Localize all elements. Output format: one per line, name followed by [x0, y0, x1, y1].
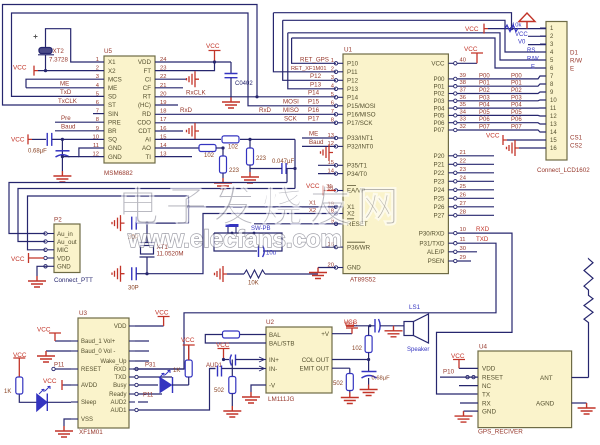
svg-text:10: 10	[460, 227, 466, 233]
wire ME to U5 pin4	[26, 87, 104, 89]
wire U4 GND wire	[464, 410, 479, 412]
wire P23 stub	[457, 180, 494, 182]
svg-text:GND: GND	[108, 145, 122, 152]
svg-text:VSS: VSS	[81, 417, 93, 423]
ground (rotated) at U5 CDT	[187, 123, 200, 139]
wire U5 (HC) stub	[155, 104, 178, 106]
wire U3 VDD wire	[135, 325, 164, 327]
svg-text:X1: X1	[108, 59, 116, 66]
svg-text:Au_in: Au_in	[57, 231, 73, 238]
svg-text:P02: P02	[511, 88, 522, 94]
wire U5 CF stub	[155, 87, 183, 89]
svg-text:Baud_1 Vol+: Baud_1 Vol+	[81, 339, 116, 345]
svg-text:P05: P05	[511, 110, 522, 116]
capacitor C 0.68uF polarized plates	[56, 150, 70, 152]
svg-text:P07: P07	[511, 125, 522, 131]
wire ME to P33 stub	[302, 137, 336, 139]
connector P2 pin stubs	[47, 233, 54, 235]
svg-text:P14: P14	[308, 89, 320, 96]
junction cap047 node	[293, 167, 296, 170]
svg-text:P11: P11	[54, 363, 65, 369]
processor U1 active-low overlines	[347, 186, 365, 243]
svg-text:32: 32	[460, 124, 466, 130]
wire L1 Au_in	[9, 183, 287, 234]
resistor C223b	[247, 148, 254, 165]
wire P06 to LCD pin13	[457, 123, 546, 124]
wire gnd to 10K	[227, 273, 244, 275]
svg-text:Au_out: Au_out	[57, 239, 77, 246]
svg-text:ALE/P: ALE/P	[427, 249, 445, 256]
svg-text:VCC: VCC	[155, 310, 169, 317]
svg-text:P2: P2	[54, 217, 62, 224]
svg-text:TXD: TXD	[476, 236, 489, 243]
svg-text:P22: P22	[433, 170, 445, 177]
svg-text:SQ: SQ	[108, 137, 117, 144]
svg-text:P12: P12	[310, 73, 322, 80]
wire U5 FT to VCC	[155, 62, 215, 71]
power VCC U3 VDD	[158, 317, 170, 327]
svg-text:E: E	[570, 66, 574, 73]
svg-text:VCC: VCC	[43, 378, 57, 385]
capacitor coupling IN+	[230, 355, 236, 366]
svg-text:TxCLK: TxCLK	[58, 98, 78, 105]
wire VCC to cap0.68a	[32, 138, 46, 140]
svg-text:VCC: VCC	[206, 43, 220, 50]
wire reset loop left	[214, 233, 257, 251]
wire U3 VSS wire	[64, 419, 71, 426]
wire P34 stub	[318, 173, 336, 175]
junction VDD node	[213, 60, 216, 63]
wire AUD1 to LM111 IN-	[138, 369, 216, 411]
svg-text:R/W: R/W	[570, 58, 582, 65]
svg-text:RT: RT	[143, 94, 151, 101]
svg-text:P03: P03	[511, 95, 522, 101]
capacitor 10u	[259, 246, 265, 258]
svg-text:AI: AI	[145, 137, 151, 144]
wire U3 Baud1 wire	[55, 340, 71, 342]
junction sw right contact	[253, 232, 256, 235]
wire cap to speaker	[380, 325, 405, 327]
svg-text:35: 35	[460, 102, 466, 108]
svg-text:Baud_0 Vol -: Baud_0 Vol -	[81, 349, 115, 355]
wire LCD pin16 wire	[519, 147, 546, 149]
ground under P2	[28, 276, 46, 287]
svg-text:P10: P10	[443, 369, 455, 376]
svg-text:P12: P12	[347, 78, 359, 85]
svg-text:AT89S52: AT89S52	[350, 277, 376, 284]
svg-text:25: 25	[460, 184, 466, 190]
svg-text:RxD: RxD	[180, 107, 193, 114]
svg-text:LM111JG: LM111JG	[268, 396, 294, 403]
svg-text:11: 11	[550, 106, 557, 112]
wire AI to C223b	[249, 139, 251, 150]
wire ANT wire	[572, 377, 589, 379]
svg-text:VCC: VCC	[216, 342, 230, 349]
svg-text:36: 36	[460, 95, 466, 101]
power VCC for U5 X2	[34, 66, 38, 76]
svg-text:P10: P10	[347, 61, 359, 68]
svg-text:10k: 10k	[512, 23, 521, 29]
svg-text:VCC: VCC	[13, 65, 27, 72]
svg-text:BAL/STB: BAL/STB	[269, 340, 294, 347]
ground under 502a	[223, 406, 241, 417]
wire +V wire	[332, 333, 352, 335]
module U3 pin stubs	[129, 325, 135, 327]
svg-text:P14: P14	[347, 95, 359, 102]
svg-text:P33/INT1: P33/INT1	[347, 135, 374, 142]
svg-text:P07: P07	[433, 127, 445, 134]
svg-text:ME: ME	[60, 81, 69, 88]
svg-text:P16/MISO: P16/MISO	[347, 112, 376, 119]
wire XT1 bottom lead	[146, 257, 148, 274]
wire BAL loop to BAL/STB	[205, 335, 266, 344]
wire 502b to gnd	[349, 391, 351, 393]
wire TxD loop B to P15	[12, 13, 337, 106]
LED D2 busy indicator	[160, 378, 172, 393]
svg-text:33: 33	[460, 117, 466, 123]
junction sw left contact	[231, 232, 234, 235]
svg-text:27: 27	[460, 201, 466, 207]
power VCC for +V	[346, 328, 358, 334]
wire LED b to U3 Sleep	[47, 401, 71, 403]
wire U5 GND to gnd chain	[62, 156, 79, 158]
svg-text:MISO: MISO	[283, 107, 299, 114]
svg-text:P36/WR: P36/WR	[347, 244, 371, 251]
svg-text:IN+: IN+	[269, 357, 279, 364]
svg-text:P25: P25	[433, 196, 445, 203]
svg-text:FT: FT	[143, 68, 151, 75]
ground under U1	[309, 268, 327, 279]
junction x188 node	[187, 205, 190, 208]
wire L1 up leg	[286, 169, 288, 183]
wire P00 to LCD pin7	[457, 76, 546, 79]
ground under 502b	[341, 393, 359, 404]
wire cap to IN-	[222, 368, 260, 370]
wire SCK CDO to U1 P17	[155, 122, 336, 124]
IC body U1 AT89S52	[343, 54, 448, 274]
wire U5 TI stub	[155, 156, 192, 158]
wire U5 GND pins tie	[79, 148, 104, 157]
wire P03 to LCD pin10	[457, 99, 546, 102]
antenna	[584, 259, 593, 378]
wire TxCLK loop A to RxCLK net	[3, 5, 258, 106]
wire U3 Ready wire	[138, 393, 162, 395]
wire XT1 top wire	[147, 222, 189, 224]
svg-text:26: 26	[460, 192, 466, 198]
svg-text:RET_XF1M01: RET_XF1M01	[291, 66, 326, 72]
ground under Baud0	[37, 351, 55, 362]
svg-text:GND: GND	[108, 154, 122, 161]
svg-text:COL OUT: COL OUT	[302, 357, 329, 364]
wire BAL wire	[240, 334, 267, 336]
svg-text:12: 12	[550, 114, 557, 120]
resistor R bal	[223, 331, 240, 338]
svg-text:P34/T0: P34/T0	[347, 171, 368, 178]
ground (rotated) at 30P b	[112, 266, 125, 282]
resistor R102a	[199, 145, 216, 152]
svg-text:6: 6	[331, 101, 334, 107]
svg-text:CF: CF	[143, 85, 151, 92]
ground (rotated) near INT pins	[321, 145, 334, 161]
wire U4 RESET wire	[440, 376, 478, 378]
wire cap068b bottom lead	[368, 378, 370, 385]
wire U3 AVDD wire	[63, 384, 71, 386]
svg-text:PRE: PRE	[108, 119, 121, 126]
wire to 502b	[349, 368, 351, 374]
ground under U4 GND	[455, 411, 473, 422]
svg-text:15: 15	[550, 138, 557, 144]
svg-text:Baud: Baud	[309, 139, 324, 146]
resistor R 1K a	[185, 360, 192, 377]
wire U5 CI stub	[155, 78, 186, 80]
resistor R 502a	[229, 377, 236, 394]
svg-text:VCC: VCC	[464, 46, 478, 53]
switch SW-PB	[226, 224, 239, 227]
wire E left leg to P13	[288, 33, 336, 89]
svg-text:TI: TI	[146, 154, 152, 161]
wire U3 B1 right stub	[135, 340, 149, 342]
svg-text:11: 11	[460, 237, 466, 243]
svg-text:R/W: R/W	[527, 56, 539, 62]
wire 1K a top lead	[188, 345, 190, 360]
svg-text:1K: 1K	[4, 389, 11, 395]
svg-text:5: 5	[331, 92, 334, 98]
svg-text:NC: NC	[482, 383, 492, 390]
svg-text:Pre: Pre	[61, 115, 71, 122]
svg-text:24: 24	[460, 175, 467, 181]
svg-text:VCC: VCC	[11, 256, 25, 263]
IC body J1 Connect_LCD1602	[546, 22, 567, 161]
wire L2 Au_out	[18, 189, 295, 242]
svg-text:U1: U1	[344, 47, 353, 54]
svg-text:VDD: VDD	[57, 255, 71, 262]
wire U3 B0 right stub	[135, 350, 149, 352]
comparator stub marks	[259, 359, 266, 361]
power VCC U4 VDD	[453, 360, 465, 369]
wire L3 MIC	[28, 196, 190, 250]
svg-text:P06: P06	[479, 117, 490, 123]
svg-text:GND: GND	[482, 408, 496, 415]
svg-text:MIC: MIC	[57, 247, 69, 254]
svg-text:P35/T1: P35/T1	[347, 163, 368, 170]
ground under U3 VSS	[55, 426, 73, 437]
svg-text:P00: P00	[479, 73, 490, 79]
svg-text:VDD: VDD	[482, 366, 496, 373]
wire P04 to LCD pin11	[457, 107, 546, 109]
ground (rotated) at LCD CS2	[507, 140, 520, 156]
svg-text:13: 13	[550, 122, 557, 128]
wire U4 RX stub	[460, 402, 478, 404]
svg-text:Connect_PTT: Connect_PTT	[54, 277, 93, 284]
svg-text:14: 14	[550, 130, 557, 136]
wire cap047 to L2	[294, 169, 296, 189]
wire to 502a	[231, 360, 233, 377]
svg-text:U4: U4	[479, 344, 488, 351]
svg-text:BR: BR	[108, 128, 117, 135]
svg-text:30: 30	[460, 246, 466, 252]
svg-text:VCC: VCC	[37, 327, 51, 334]
svg-text:10K: 10K	[248, 281, 259, 287]
svg-text:Sleep: Sleep	[81, 400, 97, 406]
wire TXD to U3 RXD	[133, 243, 496, 369]
IC body U4 GPS_RECIVER	[478, 351, 572, 428]
svg-text:102: 102	[228, 145, 239, 151]
svg-text:P26: P26	[433, 204, 445, 211]
wire SQ node down	[61, 139, 63, 171]
svg-text:P04: P04	[433, 105, 445, 112]
svg-text:RET_GPS: RET_GPS	[300, 57, 329, 64]
svg-text:CI: CI	[145, 76, 151, 83]
svg-text:X2: X2	[108, 68, 116, 75]
resistor R102b	[222, 136, 239, 143]
LED D1 indicator	[37, 394, 47, 411]
wire U3 Busy wire	[138, 384, 158, 386]
wire line C top to LCD pin1	[273, 13, 511, 29]
svg-text:Wake_Up: Wake_Up	[100, 359, 127, 365]
svg-text:IN-: IN-	[269, 366, 277, 373]
wire RXD to GPS TX	[437, 233, 513, 394]
wire U5 CDT stub	[155, 130, 183, 132]
wire D left leg to P12	[283, 20, 336, 80]
junction col node	[367, 358, 370, 361]
junction speaker line node	[369, 324, 372, 327]
wire U3 RXD wire	[138, 368, 184, 370]
wire XT2 top to U5 X1 pin1	[46, 29, 105, 62]
wire LCD pin3 wire	[528, 44, 546, 46]
resistor R 1K b	[16, 377, 23, 394]
wire P35 stub	[318, 164, 336, 166]
wire U3 WakeUp stub	[135, 360, 149, 362]
wire cap047 left wire	[250, 168, 282, 170]
wire C0402 bottom lead	[230, 78, 232, 97]
svg-text:P04: P04	[511, 103, 522, 109]
svg-text:22: 22	[460, 158, 466, 164]
wire U1 GND wire	[318, 267, 336, 269]
svg-text:30P: 30P	[128, 286, 139, 292]
IC body U3 XF1M01	[78, 318, 129, 428]
resistor R 102 c	[365, 336, 372, 353]
svg-text:ANT: ANT	[540, 375, 553, 382]
wire C223a to gnd	[222, 173, 224, 178]
ground under -V	[242, 392, 260, 403]
ground under speaker line	[385, 326, 403, 337]
wire F left leg to P10	[292, 38, 336, 63]
svg-text:P32/INT0: P32/INT0	[347, 144, 374, 151]
wire C223b to gnd	[249, 165, 251, 172]
svg-text:P31/TXD: P31/TXD	[419, 240, 445, 247]
wire U5 VDD to C0402	[155, 61, 231, 63]
ground under 0.68uF b	[360, 385, 378, 396]
svg-text:ME: ME	[108, 85, 117, 92]
svg-text:GND: GND	[347, 265, 361, 272]
wire 102c bottom lead	[368, 353, 370, 360]
power VCC for LCD pin1	[484, 24, 488, 34]
svg-text:P06: P06	[511, 117, 522, 123]
svg-text:AGND: AGND	[536, 400, 555, 407]
power VCC for U3 AVDD	[62, 380, 63, 390]
svg-text:7: 7	[331, 109, 334, 115]
capacitor speaker coupling	[375, 319, 380, 333]
wire P26 stub	[457, 206, 494, 208]
wire 102c top lead	[368, 326, 370, 336]
wire U5 AI to R102b	[155, 138, 221, 140]
svg-text:GPS_RECIVER: GPS_RECIVER	[478, 429, 523, 436]
ground (rotated) reset divider	[215, 266, 228, 282]
svg-text:34: 34	[460, 109, 467, 115]
svg-text:ST: ST	[108, 102, 116, 109]
wire P27 stub	[457, 214, 494, 216]
wire 30Pa to node	[137, 222, 148, 224]
wire P05 to LCD pin12	[457, 114, 546, 117]
wire AI node wire	[240, 138, 295, 140]
wire P21 stub	[457, 163, 494, 165]
wire P07 to LCD pin14	[457, 130, 546, 132]
speaker LS1	[404, 322, 414, 336]
svg-text:AO: AO	[142, 145, 151, 152]
power VCC for U5 SQ	[28, 134, 32, 144]
svg-text:P13: P13	[347, 86, 359, 93]
wire 1K a bottom lead	[188, 377, 190, 385]
wire COL OUT wire	[332, 359, 369, 361]
wire cap047 right wire	[286, 168, 295, 170]
capacitor C 0.047uF	[282, 163, 286, 174]
svg-text:Connect_LCD1602: Connect_LCD1602	[537, 167, 590, 174]
svg-text:P17/SCK: P17/SCK	[347, 120, 373, 127]
svg-text:VCC: VCC	[181, 337, 195, 344]
ground under C223b	[241, 172, 259, 183]
svg-text:TX: TX	[482, 391, 491, 398]
svg-text:38: 38	[460, 80, 466, 86]
wire AO to C223a	[222, 148, 224, 158]
svg-text:C0402: C0402	[235, 81, 253, 87]
svg-text:223: 223	[256, 156, 267, 162]
svg-text:AUD1: AUD1	[110, 408, 127, 414]
wire line D top to LCD RS	[283, 20, 546, 52]
processor U1 left pin stubs	[338, 62, 344, 64]
svg-text:MOSI: MOSI	[283, 99, 299, 106]
IC body P2 Connect_PTT	[54, 224, 80, 273]
junction loopA joins RxCLK	[255, 95, 258, 98]
wire cap left short	[210, 368, 216, 370]
wire LCD pin2 wire	[528, 35, 546, 37]
svg-text:P27: P27	[433, 213, 445, 220]
svg-text:U2: U2	[266, 319, 275, 326]
wire cap to IN+	[236, 359, 260, 361]
svg-text:VCC: VCC	[451, 353, 465, 360]
wire P24 stub	[457, 189, 494, 191]
wire line F top to LCD E	[292, 38, 546, 68]
junction pot node	[510, 27, 513, 30]
wire U4 AGND wire	[572, 402, 587, 404]
svg-text:P31: P31	[145, 363, 156, 369]
svg-text:RD: RD	[142, 111, 151, 118]
svg-text:RX: RX	[482, 400, 492, 407]
wire U5 MCS tie	[26, 79, 104, 88]
ground under C223a	[214, 178, 232, 189]
svg-text:RESET: RESET	[482, 374, 503, 381]
svg-text:RS: RS	[527, 48, 535, 54]
junction XT2/X2	[44, 69, 47, 72]
svg-text:P13: P13	[310, 82, 322, 89]
wire 10K to gnd node	[265, 273, 318, 275]
wire LCD pin1 wire	[488, 28, 546, 30]
power VCC for LCD CS1	[503, 135, 507, 145]
svg-text:18: 18	[160, 109, 166, 115]
junction gnd chain	[61, 155, 64, 158]
wire reset loop right	[214, 233, 282, 251]
power VCC above 1K b	[13, 358, 25, 377]
svg-text:U5: U5	[104, 48, 113, 55]
